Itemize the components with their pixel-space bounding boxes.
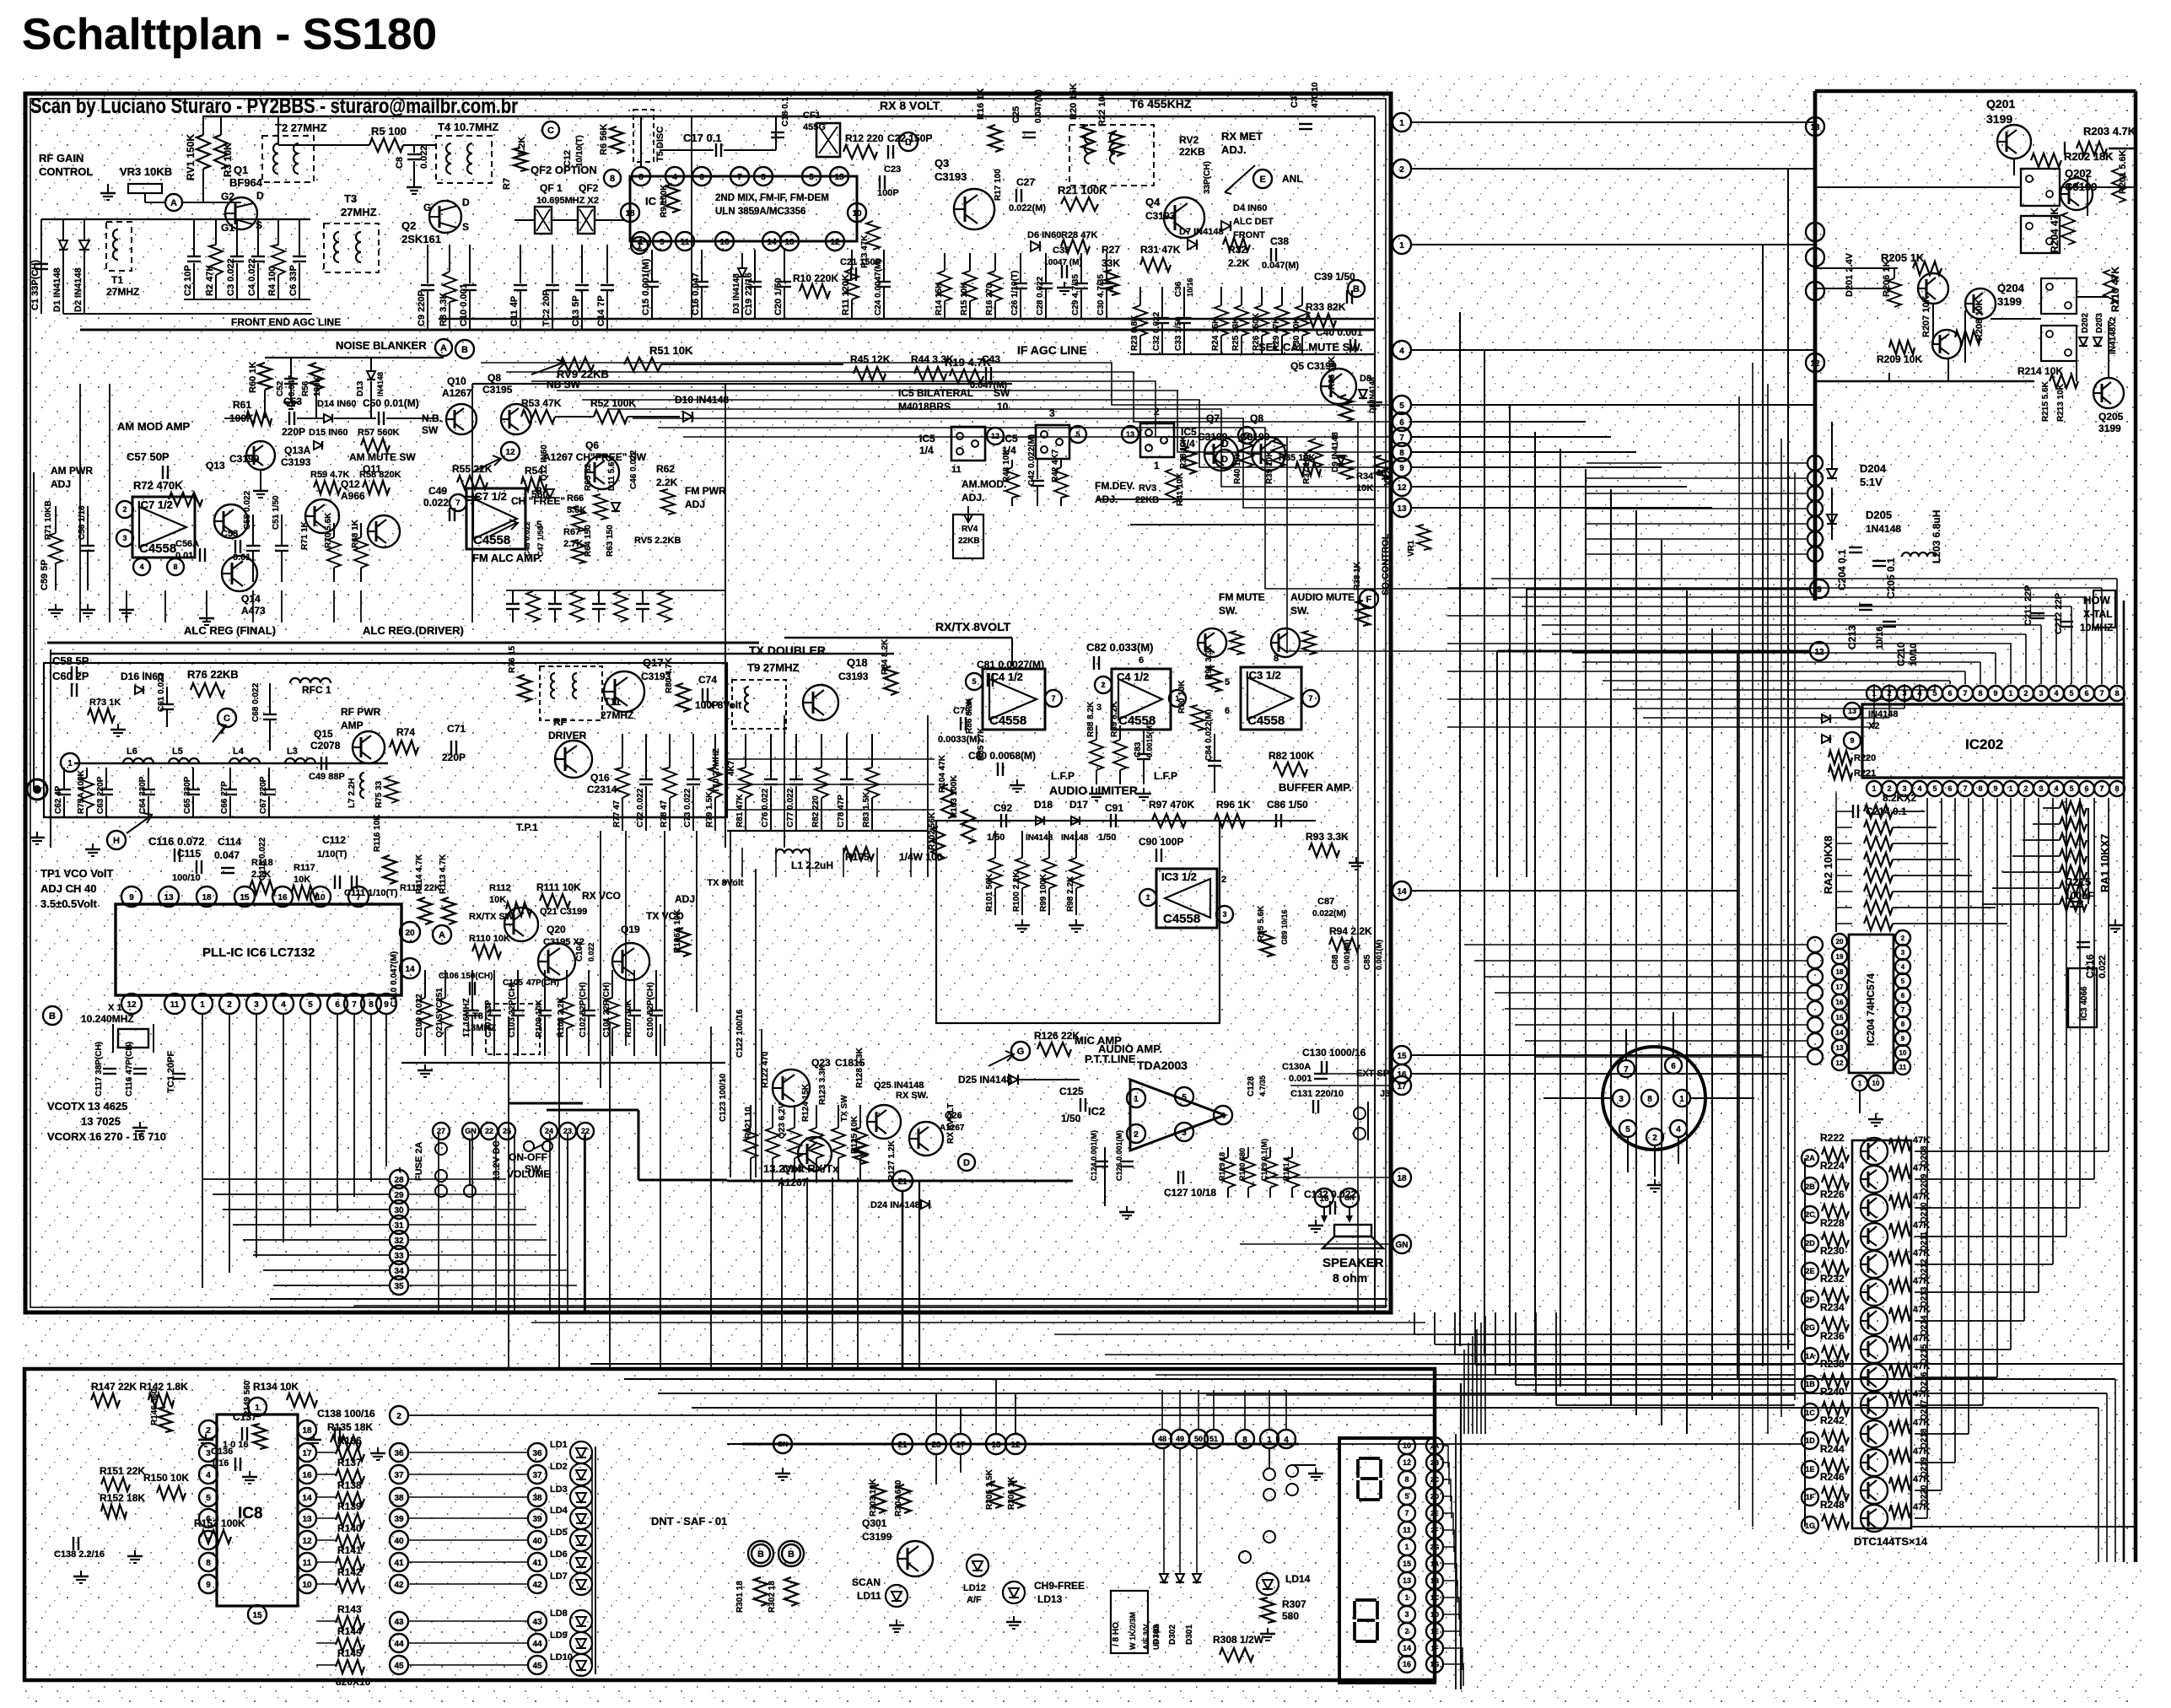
svg-text:R61: R61 <box>233 399 251 411</box>
svg-text:42: 42 <box>532 1581 542 1590</box>
svg-text:D: D <box>963 1158 970 1168</box>
svg-text:T2 27MHZ: T2 27MHZ <box>275 121 326 134</box>
svg-text:C10 0.001: C10 0.001 <box>459 283 469 326</box>
svg-text:D15 IN60: D15 IN60 <box>309 428 347 438</box>
svg-text:1A: 1A <box>1805 1352 1815 1360</box>
svg-text:C126 0.001(M): C126 0.001(M) <box>1115 1130 1123 1181</box>
svg-text:R72 470K: R72 470K <box>133 479 183 492</box>
svg-text:8 ohm: 8 ohm <box>1333 1271 1367 1285</box>
svg-text:RF PWR: RF PWR <box>341 706 381 718</box>
svg-text:R142: R142 <box>337 1566 362 1578</box>
svg-text:Q204: Q204 <box>1997 282 2025 294</box>
svg-text:LD14: LD14 <box>1285 1573 1311 1585</box>
svg-text:1B: 1B <box>1430 1577 1439 1585</box>
svg-text:22KB: 22KB <box>958 536 980 546</box>
svg-text:47P(CH): 47P(CH) <box>526 978 559 988</box>
svg-text:B: B <box>788 1549 795 1560</box>
svg-text:4: 4 <box>1399 347 1404 356</box>
svg-text:47K: 47K <box>1913 1163 1930 1173</box>
svg-text:10/16: 10/16 <box>1186 277 1194 297</box>
svg-text:R44 3.3K: R44 3.3K <box>911 353 954 365</box>
svg-text:SW: SW <box>994 387 1010 399</box>
svg-text:GN: GN <box>778 1441 788 1448</box>
svg-text:R139: R139 <box>337 1501 362 1512</box>
svg-text:5: 5 <box>206 1494 211 1503</box>
svg-text:R23 6.8K: R23 6.8K <box>1130 315 1139 351</box>
svg-text:R52 100K: R52 100K <box>590 397 636 409</box>
svg-text:C216: C216 <box>2084 954 2096 978</box>
svg-text:R213 10K: R213 10K <box>2056 383 2066 422</box>
svg-text:35: 35 <box>394 1282 404 1291</box>
svg-text:C3193: C3193 <box>1145 210 1176 222</box>
svg-text:RF GAIN: RF GAIN <box>39 152 83 164</box>
svg-text:2SK161: 2SK161 <box>401 233 441 245</box>
svg-text:RV2: RV2 <box>1179 134 1199 146</box>
svg-text:C3199: C3199 <box>862 1531 892 1543</box>
svg-text:17: 17 <box>956 1441 966 1450</box>
svg-text:2E: 2E <box>1805 1267 1814 1275</box>
svg-text:C49: C49 <box>428 485 447 497</box>
svg-text:R210 47K: R210 47K <box>2109 267 2121 312</box>
svg-text:5: 5 <box>1404 1492 1409 1501</box>
svg-text:13: 13 <box>1376 468 1387 478</box>
svg-text:R82 220: R82 220 <box>811 795 821 827</box>
svg-text:C71: C71 <box>447 723 466 735</box>
svg-text:13: 13 <box>164 893 174 902</box>
svg-text:FRONT END AGC LINE: FRONT END AGC LINE <box>231 316 341 328</box>
svg-text:NB SW: NB SW <box>547 379 581 391</box>
svg-text:0.022(M): 0.022(M) <box>1009 203 1046 213</box>
svg-text:R8 3.3K: R8 3.3K <box>439 293 449 326</box>
svg-text:R33 82K: R33 82K <box>1306 301 1346 313</box>
svg-text:IC7 1/2: IC7 1/2 <box>137 498 173 511</box>
svg-text:15: 15 <box>1397 1052 1407 1061</box>
svg-text:C66 27P: C66 27P <box>220 781 229 814</box>
svg-text:470/10: 470/10 <box>1311 82 1320 108</box>
svg-text:8: 8 <box>369 1000 374 1010</box>
svg-text:14: 14 <box>1403 1644 1411 1652</box>
svg-text:3: 3 <box>2039 689 2043 698</box>
svg-text:D302: D302 <box>1168 1624 1177 1645</box>
svg-text:15: 15 <box>240 893 250 902</box>
svg-text:3199: 3199 <box>2098 423 2121 434</box>
svg-text:R137: R137 <box>337 1457 362 1468</box>
svg-text:R152 18K: R152 18K <box>100 1492 145 1504</box>
svg-text:L1 2.2uH: L1 2.2uH <box>791 859 833 871</box>
svg-text:7: 7 <box>455 498 460 507</box>
svg-text:6: 6 <box>1399 418 1404 428</box>
svg-text:47K: 47K <box>1913 1220 1930 1231</box>
svg-text:C91: C91 <box>1105 802 1123 814</box>
svg-text:580: 580 <box>1282 1610 1299 1622</box>
svg-text:G1: G1 <box>221 222 234 234</box>
svg-text:0.047(M): 0.047(M) <box>1034 89 1043 123</box>
svg-text:3: 3 <box>2039 784 2043 793</box>
svg-text:C211 22P: C211 22P <box>2023 585 2034 626</box>
svg-text:0.0015(M): 0.0015(M) <box>1145 723 1154 757</box>
svg-text:R85 27K: R85 27K <box>977 727 986 761</box>
svg-text:T.P.1: T.P.1 <box>516 822 538 833</box>
svg-text:R64 150: R64 150 <box>584 525 593 557</box>
svg-text:7: 7 <box>1901 1006 1905 1014</box>
svg-text:1: 1 <box>1679 1095 1684 1104</box>
svg-text:39: 39 <box>532 1515 542 1524</box>
svg-text:1D: 1D <box>1805 1436 1815 1445</box>
svg-text:R79 1.5K: R79 1.5K <box>705 791 714 827</box>
svg-text:L5: L5 <box>172 746 183 757</box>
svg-text:1: 1 <box>1154 460 1160 471</box>
svg-text:0.0033(M): 0.0033(M) <box>938 735 980 745</box>
svg-text:R220: R220 <box>1854 753 1876 763</box>
svg-text:R117: R117 <box>294 863 315 873</box>
svg-text:C64 330P: C64 330P <box>138 776 148 814</box>
svg-text:6: 6 <box>699 173 704 182</box>
svg-text:R36 10K: R36 10K <box>1328 356 1337 390</box>
svg-text:16: 16 <box>277 893 288 902</box>
svg-text:A/F: A/F <box>967 1595 982 1605</box>
svg-text:47K: 47K <box>1913 1447 1930 1457</box>
svg-text:2: 2 <box>1221 875 1226 885</box>
svg-text:C215: C215 <box>2065 876 2091 888</box>
svg-text:C88: C88 <box>1331 954 1340 970</box>
svg-text:S: S <box>256 219 262 231</box>
svg-text:HOW: HOW <box>2083 594 2111 606</box>
svg-text:Q19: Q19 <box>621 924 640 935</box>
svg-text:D202: D202 <box>2081 313 2090 333</box>
svg-text:R73 1K: R73 1K <box>89 698 121 708</box>
svg-text:VR3 10KB: VR3 10KB <box>120 165 172 178</box>
svg-text:LD4: LD4 <box>550 1506 568 1516</box>
svg-text:C106 150(CH): C106 150(CH) <box>439 972 493 981</box>
svg-text:8.2KX2: 8.2KX2 <box>1883 792 1916 804</box>
svg-text:1C: 1C <box>1805 1409 1815 1417</box>
svg-text:RV3: RV3 <box>1139 483 1156 493</box>
svg-text:R101 56K: R101 56K <box>985 873 994 912</box>
svg-text:C43: C43 <box>982 353 1000 365</box>
svg-text:H: H <box>113 836 120 846</box>
svg-text:R20 15K: R20 15K <box>1069 84 1079 120</box>
svg-text:LD5: LD5 <box>550 1528 568 1538</box>
svg-text:R88 8.2K: R88 8.2K <box>1086 701 1096 737</box>
svg-text:R93 3.3K: R93 3.3K <box>1306 831 1349 843</box>
svg-text:22KB: 22KB <box>1179 146 1205 158</box>
svg-text:R95 5.6K: R95 5.6K <box>1257 905 1266 941</box>
svg-text:R116 10K: R116 10K <box>373 814 382 852</box>
svg-text:RV4: RV4 <box>962 525 978 534</box>
svg-text:47K: 47K <box>1913 1389 1930 1399</box>
svg-text:VOLUME: VOLUME <box>507 1168 550 1180</box>
svg-text:RX 8VOLT: RX 8VOLT <box>946 1103 956 1144</box>
svg-text:R230: R230 <box>1820 1245 1845 1257</box>
svg-text:R4 100: R4 100 <box>267 267 277 296</box>
svg-text:G: G <box>423 202 431 213</box>
svg-text:IC7 1/2: IC7 1/2 <box>471 490 507 503</box>
svg-text:R236: R236 <box>1820 1330 1845 1342</box>
svg-text:R62: R62 <box>656 463 675 475</box>
svg-text:R51 10K: R51 10K <box>649 344 693 357</box>
svg-text:C48 0.022: C48 0.022 <box>523 521 531 557</box>
svg-text:47K: 47K <box>1913 1305 1930 1315</box>
svg-text:8: 8 <box>536 485 542 497</box>
svg-text:1: 1 <box>1145 893 1150 902</box>
svg-text:.0047 (M): .0047 (M) <box>1046 258 1082 267</box>
svg-text:C36: C36 <box>1174 281 1183 297</box>
svg-text:Q10: Q10 <box>447 375 466 387</box>
svg-text:18: 18 <box>1397 1174 1407 1183</box>
svg-text:IC202: IC202 <box>1965 736 2003 752</box>
svg-text:29: 29 <box>394 1191 404 1200</box>
svg-text:47K: 47K <box>1913 1192 1930 1202</box>
svg-text:R70 5.6K: R70 5.6K <box>324 512 333 548</box>
svg-text:AUDIO MUTE: AUDIO MUTE <box>1290 591 1355 603</box>
svg-text:T5 DISC: T5 DISC <box>655 127 665 162</box>
svg-text:D1 IN4148: D1 IN4148 <box>52 267 62 312</box>
svg-text:C12: C12 <box>563 150 573 167</box>
svg-text:C137: C137 <box>233 1411 257 1423</box>
svg-text:S: S <box>462 221 469 233</box>
svg-text:Q3: Q3 <box>935 157 949 170</box>
svg-text:R22 100: R22 100 <box>1097 91 1107 127</box>
svg-text:3: 3 <box>122 534 127 542</box>
svg-text:37: 37 <box>532 1471 542 1480</box>
svg-text:R11 120K: R11 120K <box>850 164 854 166</box>
svg-text:27MHZ: 27MHZ <box>341 206 377 218</box>
svg-text:13: 13 <box>302 1515 312 1524</box>
svg-text:LD2: LD2 <box>550 1462 568 1472</box>
svg-text:C114: C114 <box>218 836 241 848</box>
svg-text:1B: 1B <box>1805 1380 1815 1388</box>
svg-text:RA2 10KX8: RA2 10KX8 <box>1822 836 1834 894</box>
svg-text:1G: 1G <box>1805 1522 1815 1530</box>
svg-text:41: 41 <box>532 1559 542 1568</box>
svg-text:C104: C104 <box>575 941 584 962</box>
svg-text:C61 0.022: C61 0.022 <box>157 672 166 712</box>
svg-text:C40 0.001: C40 0.001 <box>1316 326 1363 338</box>
svg-text:C3193: C3193 <box>935 170 967 183</box>
svg-text:Q16: Q16 <box>590 772 610 784</box>
svg-text:1: 1 <box>2008 689 2012 698</box>
svg-text:R77 47: R77 47 <box>612 800 622 827</box>
svg-text:15: 15 <box>252 1611 262 1620</box>
svg-text:TC2 20P: TC2 20P <box>541 290 552 326</box>
svg-text:D14 IN60: D14 IN60 <box>317 399 356 409</box>
svg-text:RV1 150K: RV1 150K <box>185 134 197 180</box>
svg-text:2F: 2F <box>1430 1527 1438 1534</box>
svg-text:BUFFER AMP.: BUFFER AMP. <box>1279 781 1352 794</box>
svg-text:8: 8 <box>1978 784 1982 793</box>
svg-text:220P: 220P <box>282 426 305 438</box>
svg-text:A: A <box>439 930 445 940</box>
svg-text:0.001(M): 0.001(M) <box>1375 940 1383 970</box>
svg-text:R222: R222 <box>1820 1132 1845 1144</box>
svg-text:14: 14 <box>767 238 777 247</box>
svg-text:2G: 2G <box>1805 1323 1815 1332</box>
svg-text:C130A: C130A <box>1282 1062 1311 1072</box>
svg-text:8: 8 <box>2114 784 2119 793</box>
svg-text:D6 IN60: D6 IN60 <box>1027 230 1061 240</box>
svg-text:RX/TX 8VOLT: RX/TX 8VOLT <box>935 620 1011 633</box>
svg-text:C92: C92 <box>994 802 1012 814</box>
svg-text:1D: 1D <box>1430 1611 1439 1619</box>
svg-text:C28 0.022: C28 0.022 <box>1036 276 1045 315</box>
svg-text:A: A <box>440 343 447 353</box>
svg-text:4: 4 <box>1901 963 1905 971</box>
svg-text:D25 IN4148: D25 IN4148 <box>958 1074 1012 1086</box>
svg-text:C58 5P: C58 5P <box>52 655 89 667</box>
svg-text:C60 2P: C60 2P <box>52 670 89 682</box>
svg-text:IN4148: IN4148 <box>376 372 385 396</box>
svg-text:0.022: 0.022 <box>419 145 429 169</box>
svg-text:1: 1 <box>67 759 73 768</box>
svg-text:1A: 1A <box>1430 1560 1439 1568</box>
svg-text:C4558: C4558 <box>1163 912 1200 926</box>
svg-text:48: 48 <box>1158 1435 1166 1443</box>
svg-text:C67 220P: C67 220P <box>259 776 268 814</box>
svg-text:7: 7 <box>206 1537 211 1546</box>
svg-text:X 1: X 1 <box>108 1003 122 1013</box>
svg-text:C29 4.7/35: C29 4.7/35 <box>1071 274 1080 315</box>
svg-text:4.7/35: 4.7/35 <box>1258 1075 1267 1096</box>
svg-text:16: 16 <box>1397 1070 1407 1080</box>
svg-text:L4: L4 <box>233 746 245 757</box>
svg-text:IC5 BILATERAL: IC5 BILATERAL <box>898 387 973 399</box>
svg-text:13: 13 <box>784 238 795 247</box>
svg-text:2.2K: 2.2K <box>656 477 678 488</box>
svg-text:R307: R307 <box>1282 1598 1306 1610</box>
svg-text:51: 51 <box>1209 1435 1218 1443</box>
svg-text:ADJ.: ADJ. <box>1221 143 1247 156</box>
svg-text:R214 10K: R214 10K <box>2017 365 2063 377</box>
svg-text:9: 9 <box>129 893 134 902</box>
svg-text:SW: SW <box>422 424 439 436</box>
svg-text:4: 4 <box>139 563 143 571</box>
svg-text:IN4148: IN4148 <box>1061 833 1089 843</box>
svg-text:AM.MOD.: AM.MOD. <box>962 478 1006 490</box>
svg-text:100P: 100P <box>877 188 899 198</box>
svg-text:R234: R234 <box>1820 1301 1845 1313</box>
svg-text:DRIVER: DRIVER <box>548 730 587 741</box>
svg-text:J3: J3 <box>1380 1089 1390 1099</box>
svg-text:47K: 47K <box>1913 1248 1930 1258</box>
svg-text:9: 9 <box>1993 784 1997 793</box>
svg-text:R144: R144 <box>337 1625 362 1637</box>
svg-text:4: 4 <box>2054 784 2058 793</box>
svg-text:R76 15: R76 15 <box>508 645 517 673</box>
svg-text:C: C <box>547 126 554 136</box>
svg-text:6: 6 <box>335 1000 340 1010</box>
svg-text:8: 8 <box>1978 689 1982 698</box>
svg-text:C50 0.01(M): C50 0.01(M) <box>363 397 419 409</box>
svg-text:D3 IN4148: D3 IN4148 <box>732 273 741 314</box>
svg-text:C30 4.7/35: C30 4.7/35 <box>1096 274 1106 315</box>
svg-text:R65 82: R65 82 <box>584 463 593 491</box>
svg-text:C6 33P: C6 33P <box>288 265 299 296</box>
svg-text:C204 0.1: C204 0.1 <box>1836 549 1848 590</box>
svg-text:R28 47K: R28 47K <box>1061 230 1097 240</box>
svg-text:R141: R141 <box>337 1544 362 1556</box>
svg-text:Q23 6.2V: Q23 6.2V <box>778 1102 787 1139</box>
svg-text:Q205: Q205 <box>2098 411 2124 423</box>
svg-text:37: 37 <box>394 1471 404 1480</box>
svg-text:4: 4 <box>1220 1112 1226 1121</box>
svg-text:1F: 1F <box>1430 1645 1438 1652</box>
svg-text:4: 4 <box>1917 784 1921 793</box>
svg-text:ADJ.: ADJ. <box>962 492 984 504</box>
svg-text:C138 100/16: C138 100/16 <box>317 1408 375 1420</box>
svg-text:FUSE 2A: FUSE 2A <box>414 1141 424 1181</box>
svg-text:TC1 20PF: TC1 20PF <box>166 1051 176 1093</box>
svg-text:10: 10 <box>1899 1049 1907 1057</box>
svg-text:LD8: LD8 <box>550 1608 568 1619</box>
svg-text:TX 8Volt: TX 8Volt <box>702 699 741 711</box>
svg-text:49: 49 <box>1176 1435 1184 1443</box>
svg-text:Q15: Q15 <box>314 728 333 740</box>
svg-text:CONTROL: CONTROL <box>39 165 93 178</box>
svg-text:D2 IN4148: D2 IN4148 <box>73 267 83 312</box>
svg-text:R301 18: R301 18 <box>735 1581 745 1613</box>
svg-text:R90 10K: R90 10K <box>1177 680 1187 714</box>
svg-text:1/4: 1/4 <box>919 445 934 456</box>
svg-text:0.001: 0.001 <box>1289 1074 1312 1084</box>
svg-text:C: C <box>224 714 230 724</box>
svg-text:L203 6.8uH: L203 6.8uH <box>1931 510 1942 563</box>
svg-text:1: 1 <box>1134 1095 1139 1104</box>
svg-text:C3193: C3193 <box>281 456 311 468</box>
svg-text:LD7: LD7 <box>550 1571 568 1581</box>
svg-text:220P: 220P <box>442 752 466 763</box>
svg-text:1E: 1E <box>1805 1465 1814 1474</box>
svg-text:X-TAL: X-TAL <box>2083 608 2112 620</box>
svg-text:R248: R248 <box>1820 1499 1845 1511</box>
svg-text:8: 8 <box>2114 689 2119 698</box>
svg-text:CF1: CF1 <box>803 110 821 121</box>
svg-text:C213: C213 <box>1846 625 1858 649</box>
svg-text:RX SW.: RX SW. <box>896 1091 929 1101</box>
svg-text:2B: 2B <box>1430 1459 1439 1467</box>
svg-text:C123 100/10: C123 100/10 <box>719 1073 728 1122</box>
svg-text:16: 16 <box>302 1471 312 1480</box>
svg-text:8: 8 <box>1399 449 1404 458</box>
svg-text:C4 0.022: C4 0.022 <box>247 258 257 296</box>
svg-text:R16 270: R16 270 <box>985 283 994 315</box>
svg-text:18: 18 <box>625 209 635 218</box>
svg-text:10.695MHZ X2: 10.695MHZ X2 <box>536 196 599 206</box>
svg-text:7: 7 <box>2099 689 2104 698</box>
svg-text:C42 0.022(M): C42 0.022(M) <box>1027 434 1037 486</box>
svg-text:2: 2 <box>1134 1130 1139 1140</box>
svg-text:15: 15 <box>1403 1560 1411 1568</box>
svg-text:B: B <box>757 1549 764 1560</box>
svg-text:D204: D204 <box>1860 462 1887 475</box>
svg-text:R71 1K: R71 1K <box>300 520 310 550</box>
svg-text:R138: R138 <box>337 1479 362 1491</box>
svg-text:1F: 1F <box>1806 1493 1815 1501</box>
svg-text:6: 6 <box>1947 784 1952 793</box>
svg-text:2D: 2D <box>1805 1239 1815 1247</box>
svg-text:2A: 2A <box>1805 1154 1815 1162</box>
svg-text:40: 40 <box>394 1537 404 1546</box>
svg-text:5: 5 <box>1225 677 1230 687</box>
svg-text:C3 0.022: C3 0.022 <box>226 258 236 296</box>
svg-text:QF 1: QF 1 <box>540 182 563 194</box>
svg-text:C23: C23 <box>884 164 901 175</box>
svg-text:2B: 2B <box>1805 1183 1815 1191</box>
svg-text:C112: C112 <box>322 834 346 846</box>
svg-text:LD11: LD11 <box>857 1590 881 1602</box>
svg-text:IN4148X2: IN4148X2 <box>2109 316 2118 354</box>
svg-text:C14 7P: C14 7P <box>596 295 606 326</box>
svg-text:D11 5.6V: D11 5.6V <box>607 456 617 491</box>
